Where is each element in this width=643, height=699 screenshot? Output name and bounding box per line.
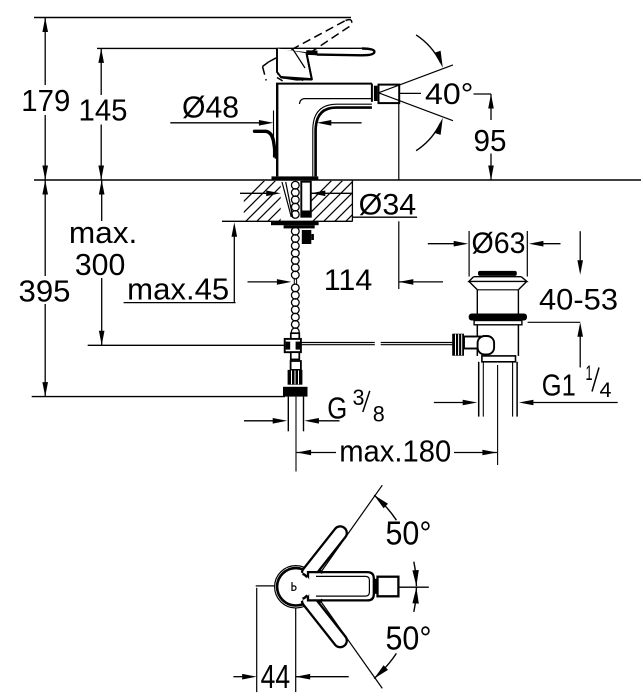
lever raised position (dashed) bbox=[263, 20, 352, 81]
drain gasket bbox=[469, 314, 527, 321]
drain plug dome bbox=[478, 271, 517, 276]
aerator box bbox=[379, 85, 400, 104]
dimension O48 arrows bbox=[170, 122, 259, 124]
deck underside line bbox=[222, 220, 353, 222]
svg-text:Ø63: Ø63 bbox=[472, 227, 526, 260]
svg-text:max.45: max.45 bbox=[127, 271, 229, 306]
dimension max.180 line bbox=[297, 450, 312, 456]
drain flange bbox=[469, 277, 527, 282]
svg-text:40°: 40° bbox=[425, 78, 474, 111]
rod connector box bbox=[464, 337, 480, 349]
svg-text:300: 300 bbox=[75, 247, 126, 282]
svg-text:4: 4 bbox=[600, 379, 612, 402]
svg-text:max.180: max.180 bbox=[339, 433, 451, 468]
stub left of circle bbox=[256, 585, 275, 587]
hose tails G3/8 bbox=[287, 397, 289, 432]
dimension O63 arrows bbox=[428, 243, 454, 245]
spout underside bbox=[316, 108, 372, 177]
lever top view lower (-50deg) bbox=[299, 591, 349, 650]
ball joint housing bbox=[478, 336, 495, 355]
flex hose mid bbox=[291, 227, 299, 235]
centerline right of aerator bbox=[398, 586, 428, 588]
outlet stub bbox=[374, 86, 378, 101]
pop-up rod knob bbox=[452, 334, 464, 356]
washer below deck bbox=[271, 222, 319, 225]
svg-text:145: 145 bbox=[79, 93, 128, 128]
dimension O34 arrows bbox=[240, 192, 267, 194]
pop-up rod horizontal bbox=[301, 342, 375, 344]
hose knurled nut bbox=[288, 370, 303, 385]
dimension 145 line bbox=[100, 48, 102, 95]
dimension G1 1/4 arrows bbox=[434, 402, 463, 404]
logo mark in circle bbox=[292, 582, 296, 591]
dimension 44 extension lines bbox=[256, 588, 258, 692]
extension line lever top bbox=[97, 47, 278, 49]
rod level reference line (max300 bottom) bbox=[88, 344, 285, 346]
second hose stub bbox=[302, 230, 312, 244]
svg-text:3: 3 bbox=[353, 385, 365, 410]
mounting nut bbox=[284, 225, 315, 228]
drain flange lower bbox=[474, 321, 522, 325]
svg-text:G1: G1 bbox=[542, 367, 576, 402]
coupling ring bbox=[482, 356, 516, 362]
svg-text:114: 114 bbox=[324, 264, 373, 297]
svg-text:44: 44 bbox=[261, 658, 291, 695]
deck hatching left bbox=[224, 181, 397, 222]
cartridge cover bbox=[277, 48, 312, 79]
hose end reference line (395 bottom) bbox=[32, 396, 285, 398]
construction line lower 50deg bbox=[316, 595, 382, 689]
faucet body circle top view bbox=[275, 566, 317, 608]
drain body bbox=[476, 325, 478, 356]
rod junction fitting bbox=[291, 333, 300, 339]
svg-text:G: G bbox=[327, 391, 347, 426]
dimension 95 line bbox=[490, 94, 492, 120]
svg-text:Ø34: Ø34 bbox=[359, 188, 417, 221]
lever top view upper (+50deg) bbox=[299, 524, 349, 583]
mounting wedge bbox=[282, 182, 291, 217]
flex hose upper (through deck) bbox=[291, 181, 299, 189]
joint bar spout/aerator bbox=[374, 579, 377, 594]
spout interior line bbox=[304, 98, 372, 100]
svg-text:8: 8 bbox=[373, 401, 385, 426]
dimension 44 arrows bbox=[233, 676, 243, 678]
circle interior cleanup bbox=[281, 572, 311, 602]
dimension max.300 line bbox=[101, 180, 103, 221]
dimension 179 line bbox=[44, 18, 46, 86]
shank bbox=[301, 182, 311, 217]
lever blade (solid position) bbox=[278, 48, 374, 55]
deck right face / O34 leader bbox=[351, 181, 353, 222]
dimension 40-53 line bbox=[528, 321, 581, 323]
tailpipe bbox=[478, 362, 480, 417]
spout top view bbox=[308, 572, 374, 600]
aerator top view bbox=[378, 577, 399, 597]
svg-text:179: 179 bbox=[21, 83, 70, 118]
dimension G3/8 arrows bbox=[244, 420, 273, 422]
dimension 114 arrows bbox=[248, 281, 278, 283]
svg-text:395: 395 bbox=[19, 273, 71, 308]
drain neck bbox=[476, 290, 478, 314]
flex hose lower bbox=[291, 284, 299, 292]
fillet marks bbox=[303, 574, 308, 578]
hose end fitting bbox=[291, 361, 301, 370]
base plate bbox=[272, 176, 319, 180]
pop-up knob on body bbox=[255, 131, 276, 157]
svg-text:50°: 50° bbox=[386, 620, 432, 657]
dimension O48 extension line bbox=[273, 111, 275, 158]
svg-text:1: 1 bbox=[586, 362, 593, 385]
dimension O34 label bbox=[352, 216, 417, 218]
angle arc lower 50deg bbox=[374, 653, 396, 678]
dimension 395 line bbox=[44, 180, 46, 276]
hose hex nut bbox=[283, 387, 308, 397]
svg-text:50°: 50° bbox=[386, 515, 432, 552]
dimension O63 extension lines bbox=[468, 231, 470, 277]
svg-text:max.: max. bbox=[69, 215, 138, 250]
deck hatching right bbox=[291, 181, 464, 222]
deck/counter top line bbox=[34, 179, 641, 181]
faucet body outline bbox=[276, 84, 278, 177]
svg-text:95: 95 bbox=[474, 123, 507, 158]
svg-text:Ø48: Ø48 bbox=[182, 89, 239, 124]
angle arc upper 40deg bbox=[416, 35, 440, 63]
dimension 114 extension line bbox=[398, 103, 400, 180]
spray fan lines 40deg bbox=[379, 65, 453, 93]
svg-text:40-53: 40-53 bbox=[539, 284, 618, 317]
angle arc lower 40deg bbox=[416, 123, 440, 151]
label 40deg leader bbox=[400, 92, 421, 94]
hose break marks bbox=[293, 278, 295, 284]
construction line upper 50deg bbox=[316, 485, 382, 579]
angle arc upper 50deg bbox=[374, 495, 396, 520]
extension line top (lever max height) bbox=[34, 17, 351, 19]
dimension max.45 leader bbox=[124, 302, 236, 304]
